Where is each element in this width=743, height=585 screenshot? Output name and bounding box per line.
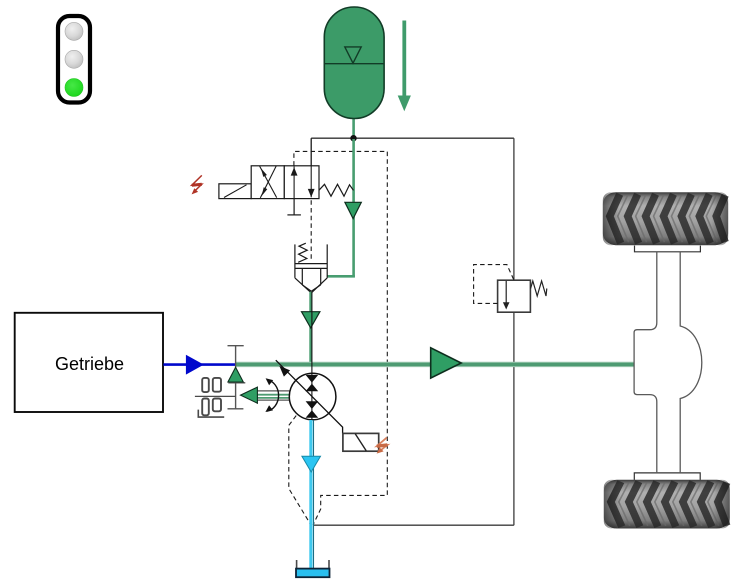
directional valve U1 <box>219 166 319 199</box>
flow arrow below check valve <box>302 312 320 328</box>
wire: right riser lower segment <box>513 312 515 525</box>
variable displacement diagonal arrow <box>276 360 343 433</box>
pump P1 circle <box>289 373 336 420</box>
pump internal arrows <box>306 375 319 383</box>
wheel top tire <box>603 192 728 245</box>
pump shaft double line <box>257 390 289 392</box>
wire: right riser upper segment <box>513 138 515 280</box>
cyan flow arrow <box>302 456 321 472</box>
relief valve pilot dashed <box>474 265 514 304</box>
node: junction at accumulator <box>350 135 356 141</box>
displacement control box <box>343 433 379 451</box>
valve tank port <box>293 199 295 215</box>
tank <box>296 560 330 577</box>
control lightning bolt <box>377 438 388 454</box>
solenoid lightning bolt <box>192 175 202 194</box>
blue direction arrow <box>186 355 204 375</box>
valve return spring <box>319 184 354 196</box>
green flow: check valve down to main line <box>309 292 311 365</box>
big flow arrow on main line <box>431 348 462 378</box>
svg-text:Getriebe: Getriebe <box>55 354 124 374</box>
axle bottom bracket <box>634 473 700 480</box>
relief valve <box>498 280 531 312</box>
wire: left drop into valve <box>310 138 312 166</box>
axle and differential housing <box>634 252 702 473</box>
wire: bottom horizontal return <box>313 524 514 526</box>
cyan return line <box>313 420 315 568</box>
green flow: elbow into check valve <box>327 275 355 278</box>
flow arrow under spring <box>345 202 361 218</box>
valve solenoid diagonal <box>224 185 247 198</box>
blue shaft line from Getriebe <box>163 363 236 366</box>
pump internal line <box>311 292 313 421</box>
flow direction arrow (top right of accumulator) <box>398 21 411 112</box>
accumulator <box>324 7 384 119</box>
traffic light <box>58 16 90 103</box>
green left arrow on pump shaft <box>241 387 258 403</box>
green flow: supply line through valve area <box>352 139 355 277</box>
shaft flange symbol <box>228 346 246 409</box>
check valve (pilot operated) <box>295 243 327 293</box>
main green pressure line <box>236 362 635 367</box>
valve parallel paths <box>293 167 295 199</box>
wheel bottom tire <box>604 480 730 529</box>
wire: top horizontal from valve drop to right riser <box>311 137 514 139</box>
valve crossed arrows <box>260 166 277 198</box>
green up arrow on shaft <box>228 367 243 382</box>
dashed boundary: transmission group <box>289 151 388 524</box>
rotation arc arrow <box>267 380 279 412</box>
axle top bracket <box>635 246 701 252</box>
dashed pilot line: valve to check valve <box>310 200 312 258</box>
Getriebe block <box>15 313 163 412</box>
wire: accumulator port down to junction <box>352 117 355 139</box>
gearbox icon <box>195 378 236 417</box>
